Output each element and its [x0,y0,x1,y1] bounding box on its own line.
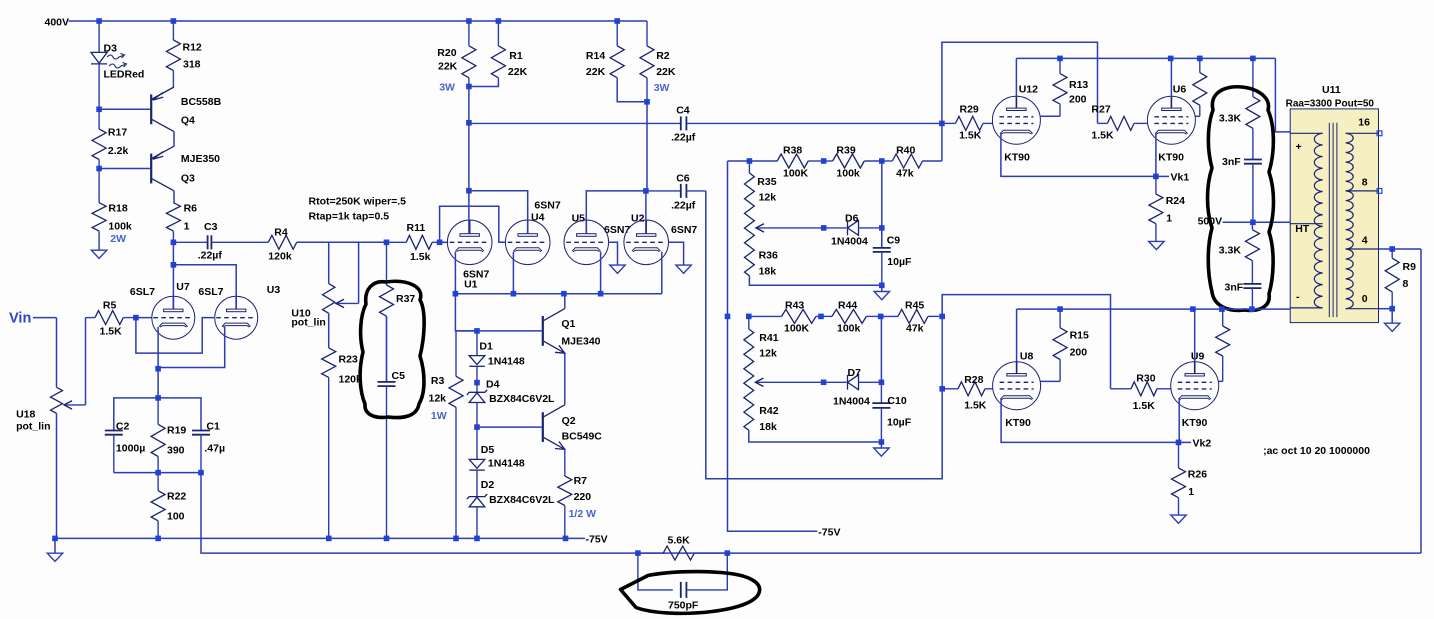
svg-text:6SN7: 6SN7 [534,200,560,212]
svg-text:R18: R18 [108,203,127,215]
svg-text:MJE350: MJE350 [181,153,220,165]
resistor R5 [86,311,136,325]
svg-text:4: 4 [1362,234,1368,246]
junction [474,536,480,542]
wire U3 grid under-route [136,318,214,354]
svg-text:U5: U5 [572,213,586,225]
svg-text:KT90: KT90 [1158,152,1184,164]
capacitor C1 [192,431,210,473]
svg-text:.22µf: .22µf [198,250,223,262]
wire over-route to R27 [942,42,1098,123]
svg-text:8: 8 [1403,278,1409,290]
junction [466,18,472,24]
resistor R12 [166,21,180,87]
svg-text:C2: C2 [116,421,130,433]
svg-text:KT90: KT90 [1004,152,1030,164]
svg-text:U8: U8 [1020,351,1034,363]
wire Vin down to U18 [56,318,58,388]
svg-text:R1: R1 [509,50,523,62]
capacitor C9 [873,228,891,285]
transistor Q1 (MJE340) [543,309,565,354]
wire Q1 base [477,330,542,332]
wire to U10 top [328,242,330,283]
wire tap4 out [1379,248,1422,250]
resistor snubber R 3.3K upper [1246,58,1260,159]
wire tap0 gnd stub [1391,309,1393,324]
resistor R30 [1111,382,1172,396]
wire R2 bottom to C6 node [646,102,648,191]
wiper arrow R41/R42 [755,378,823,386]
junction [96,166,102,172]
wire U5 cathode [600,252,602,294]
wire R4 to R11 node [297,241,387,243]
svg-text:U11: U11 [1322,84,1341,96]
wire R5 to U7 grid [136,317,152,319]
wire U2 grid [669,242,684,264]
junction [614,18,620,24]
junction [879,439,885,445]
wire U7 cathode down [157,327,159,369]
wire lower plate line [1017,308,1291,310]
wire C10 gnd stub [880,442,882,448]
svg-text:2W: 2W [110,233,126,245]
svg-text:-: - [1296,291,1300,303]
svg-text:6SL7: 6SL7 [130,286,155,298]
svg-text:R11: R11 [407,222,426,234]
port tap 16 [1377,131,1382,136]
svg-text:R23: R23 [339,354,358,366]
svg-text:Q3: Q3 [181,173,195,185]
svg-text:R14: R14 [586,50,605,62]
svg-text:R39: R39 [836,145,855,157]
ground R18 [91,250,106,258]
junction [1168,56,1174,62]
resistor R17 [92,109,106,168]
diode D7 (1N4004) [824,375,882,390]
resistor R23 [322,348,336,539]
annotation blob around 750pF [621,572,760,614]
svg-text:22K: 22K [656,66,676,78]
wire R3 top to D1 node [456,330,477,332]
junction [384,536,390,542]
wire R45 right riser [941,316,943,388]
transistor Q2 (BC549C) [543,405,565,450]
junction [453,536,459,542]
junction [453,291,459,297]
svg-text:8: 8 [1362,177,1368,189]
wire 750pF branch right [686,553,727,590]
resistor U6 screen resistor [1193,58,1207,116]
svg-text:HT: HT [1295,223,1310,235]
resistor R1 [491,21,505,80]
svg-text:D2: D2 [481,479,495,491]
wire R35 top lead [748,161,750,173]
resistor R37 [380,242,394,382]
svg-text:1: 1 [1166,213,1172,225]
svg-text:R37: R37 [396,293,415,305]
junction [818,314,824,320]
svg-text:R29: R29 [960,104,979,116]
junction [598,291,604,297]
svg-text:1000µ: 1000µ [116,443,145,455]
resistor U9 screen resistor [1216,309,1230,381]
svg-text:Rtot=250K wiper=.5: Rtot=250K wiper=.5 [309,196,407,208]
svg-text:Q1: Q1 [561,318,575,330]
svg-text:R36: R36 [759,250,778,262]
resistor R13 [1053,58,1067,116]
junction [747,158,753,164]
svg-text:1N4148: 1N4148 [488,356,525,368]
junction [474,424,480,430]
svg-text:-75V: -75V [586,534,608,546]
junction [326,536,332,542]
junction [635,550,641,556]
wire to U9 screen [1218,380,1222,382]
svg-text:R13: R13 [1069,79,1088,91]
pentode U9 [1171,361,1219,410]
svg-text:100k: 100k [108,221,132,233]
potentiometer U10 wiper arrow [336,299,359,307]
wire cathode RC top loop [114,398,201,431]
svg-text:R28: R28 [964,374,983,386]
capacitor 3nF lower [1243,284,1261,309]
wire U5 grid [609,242,618,264]
svg-text:D4: D4 [486,378,500,390]
svg-text:6SN7: 6SN7 [604,224,630,236]
resistor snubber R 3.3K lower [1245,222,1259,284]
junction [384,240,390,246]
junction [1190,306,1196,312]
svg-text:3nF: 3nF [1222,156,1241,168]
capacitor 750pF [681,582,687,598]
svg-text:1.5K: 1.5K [1091,130,1114,142]
potentiometer U18 wiper arrow [64,401,86,409]
svg-text:R26: R26 [1188,469,1207,481]
wire RC bottom loop [114,472,201,474]
svg-text:R44: R44 [838,300,857,312]
junction [155,536,161,542]
diode D5 (1N4148) [469,427,485,497]
svg-text:3nF: 3nF [1225,282,1244,294]
capacitor C4 [469,116,942,130]
wire C1 bottom to feedback [201,473,202,553]
resistor R11 [387,235,440,249]
resistor R3 [449,331,463,539]
wire U12 plate riser [1015,58,1017,96]
svg-text:C1: C1 [206,421,220,433]
svg-text:MJE340: MJE340 [561,335,600,347]
junction [171,262,177,268]
wire feedback right riser [1420,249,1422,553]
transistor Q3 (MJE350) [151,146,174,191]
junction [155,470,161,476]
triode U4 [505,220,550,265]
capacitor C10 [872,403,890,442]
wire U10 to R23 [328,313,330,348]
svg-text:D3: D3 [104,43,118,55]
wire U6 cathode [1155,133,1157,176]
wire U2 plate lead [645,191,647,234]
svg-text:120k: 120k [268,251,292,263]
transformer - terminal [1290,307,1322,309]
svg-text:0: 0 [1362,293,1368,305]
junction [939,314,945,320]
capacitor C5 [378,316,396,538]
junction [643,188,649,194]
transformer core [1329,123,1337,317]
junction [474,380,480,386]
svg-text:U6: U6 [1173,84,1187,96]
wire network left ext [728,160,750,162]
svg-text:Vk2: Vk2 [1193,438,1212,450]
wire -75V rail [55,537,585,539]
pentode U8 [993,361,1041,410]
pentode U12 [992,96,1040,145]
resistor R24 [1149,176,1163,241]
svg-text:Q2: Q2 [562,415,576,427]
resistor R39 [824,154,882,168]
svg-text:U1: U1 [464,279,478,291]
svg-text:18k: 18k [759,266,777,278]
resistor R44 [821,309,880,323]
wire C3 node down [172,242,174,264]
svg-text:750pF: 750pF [668,600,699,612]
junction [821,380,827,386]
svg-text:R35: R35 [757,176,776,188]
diode D1 (1N4148) [469,331,485,383]
svg-text:3.3K: 3.3K [1219,113,1242,125]
svg-text:Vin: Vin [9,311,31,327]
junction [52,536,58,542]
junction [821,158,827,164]
resistor R29 [942,116,993,130]
svg-text:U2: U2 [631,213,645,225]
wire U4 cathode [512,252,514,294]
svg-text:R27: R27 [1091,104,1110,116]
svg-text:12k: 12k [759,348,777,360]
svg-text:Q4: Q4 [181,114,195,126]
wire 400V rail [69,20,648,22]
wire Vk2 stub [1179,441,1192,443]
resistor R14 [610,21,624,80]
ground C9 [874,292,889,300]
wire U5 plate [586,191,646,234]
wire C10 column upper [880,316,882,382]
svg-text:220: 220 [574,491,592,503]
ground tap0 [1385,323,1400,331]
junction [96,107,102,113]
svg-text:100K: 100K [783,168,809,180]
svg-text:318: 318 [183,59,201,71]
svg-text:.22µf: .22µf [671,132,696,144]
svg-text:U18: U18 [16,409,35,421]
wire C9 column [881,161,883,248]
svg-text:1/2 W: 1/2 W [569,508,597,520]
junction [879,380,885,386]
resistor R4 [246,235,329,249]
svg-text:Rtap=1k tap=0.5: Rtap=1k tap=0.5 [309,211,390,223]
svg-text:R5: R5 [103,300,117,312]
ground R26 [1171,515,1186,523]
svg-text:47k: 47k [896,168,914,180]
junction [466,120,472,126]
svg-text:D7: D7 [848,367,862,379]
wire grid node to R40 [941,123,943,161]
resistor R18 [92,169,106,250]
transformer tap 4 [1346,248,1379,250]
potentiometer R35/R36 body [745,173,755,276]
junction [879,158,885,164]
svg-text:C10: C10 [887,395,906,407]
wire Vin [33,317,57,319]
junction [1250,220,1256,226]
transistor Q4 (BC558B) [151,87,174,132]
resistor R2 [640,21,654,102]
resistor R20 [462,21,476,87]
svg-text:1.5K: 1.5K [100,326,123,338]
svg-text:-75V: -75V [818,527,840,539]
junction [939,386,945,392]
wire cathode to D1/Q1 node [455,294,477,331]
svg-text:D5: D5 [481,444,495,456]
svg-text:U9: U9 [1191,351,1205,363]
wire -75V rail riser [728,161,818,531]
wire U3 cathode [158,327,225,368]
svg-text:C9: C9 [887,235,901,247]
port tap 8 [1377,189,1382,194]
svg-text:1N4004: 1N4004 [833,396,870,408]
junction [1219,306,1225,312]
svg-text:pot_lin: pot_lin [16,421,50,433]
junction [821,225,827,231]
svg-text:D6: D6 [845,213,859,225]
svg-text:10µF: 10µF [887,417,912,429]
svg-text:Raa=3300 Pout=50: Raa=3300 Pout=50 [1286,99,1375,110]
svg-text:R40: R40 [896,145,915,157]
junction [1389,246,1395,252]
annotation blob around snubbers [1208,87,1274,311]
transformer tap 0 [1346,308,1379,310]
svg-text:R17: R17 [108,126,127,138]
triode U2 [624,220,669,265]
svg-text:1: 1 [1188,486,1194,498]
svg-text:400V: 400V [45,16,70,28]
svg-text:C4: C4 [676,105,690,117]
wire R36 bottom [749,276,881,286]
junction [1197,56,1203,62]
junction [171,18,177,24]
svg-text:KT90: KT90 [1005,417,1031,429]
wire Q1 collector [564,294,566,309]
svg-text:BZX84C6V2L: BZX84C6V2L [489,494,555,506]
ground U2 grid [676,265,691,273]
junction [466,84,472,90]
svg-text:1.5K: 1.5K [964,400,987,412]
svg-text:KT90: KT90 [1182,417,1208,429]
wire U2 cathode [661,252,663,294]
junction [1176,440,1182,446]
wire Q3 base [99,168,150,170]
zener D4 (BZX84C6V2L) [467,383,487,428]
svg-text:22K: 22K [438,61,458,73]
wire U18 gnd stub [54,538,56,553]
junction [511,291,517,297]
svg-text:1.5K: 1.5K [1133,400,1156,412]
svg-text:100: 100 [167,511,185,523]
svg-text:U4: U4 [531,212,545,224]
wire Q4 collector to Q3 emitter [173,132,175,147]
pentode U6 [1147,96,1195,145]
svg-text:Vk1: Vk1 [1171,172,1190,184]
svg-text:22K: 22K [586,66,606,78]
wire U18 bottom [56,413,58,538]
svg-text:R24: R24 [1166,195,1185,207]
svg-text:100k: 100k [836,168,860,180]
triode U3 [215,296,258,340]
svg-text:1.5K: 1.5K [959,130,982,142]
svg-text:U3: U3 [267,284,281,296]
wire to C4 node [468,87,470,123]
junction [133,315,139,321]
transformer secondary winding [1346,133,1354,308]
capacitor C2 [105,431,123,473]
svg-text:C5: C5 [392,370,406,382]
wire Vk1 stub [1156,175,1169,177]
wire C10 column [880,382,882,403]
junction [746,314,752,320]
potentiometer U18 body [51,387,63,413]
junction [155,366,161,372]
resistor R15 [1053,309,1067,381]
junction [96,18,102,24]
wire C9 gnd stub [881,285,883,291]
capacitor C3 [173,235,246,249]
svg-text:R45: R45 [905,300,924,312]
svg-text:22K: 22K [508,66,528,78]
transformer U11 box [1290,109,1378,323]
diode D6 (1N4004) [824,221,882,236]
wire U18 wiper up [85,318,87,405]
wire U1 cathode [454,252,456,294]
wire R13 to U12 screen [1040,115,1060,117]
wire Q2 base [477,426,542,428]
wire R15 to U8 screen [1040,380,1060,382]
wire R41 top lead [748,316,750,329]
resistor R27 [1098,116,1149,130]
svg-text:12k: 12k [759,192,777,204]
svg-text:BC558B: BC558B [181,96,222,108]
wire U9 cathode [1178,398,1180,442]
junction [155,395,161,401]
wire U12 cathode to Vk1 [1001,133,1156,176]
svg-text:U7: U7 [176,281,190,293]
svg-text:1W: 1W [431,410,447,422]
junction [1153,174,1159,180]
svg-text:.47µ: .47µ [204,443,225,455]
svg-text:100k: 100k [837,323,861,335]
svg-text:18k: 18k [759,421,777,433]
junction [878,314,884,320]
wire U6 plate riser [1170,58,1172,96]
svg-text:+: + [1296,141,1302,153]
wire U4 grid over-route [440,206,506,242]
resistor R19 [151,398,165,473]
zener D2 (BZX84C6V2L) [467,494,487,538]
svg-text:3W: 3W [654,82,670,94]
svg-text:6SL7: 6SL7 [198,286,223,298]
wire tap0 out [1379,308,1393,310]
wire U9 plate riser [1194,309,1196,362]
